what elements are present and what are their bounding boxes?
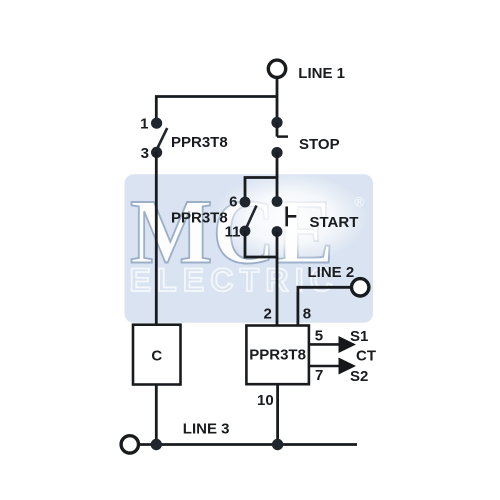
wire: relay pin 10 to LINE 3: [276, 384, 279, 444]
svg-text:LINE 2: LINE 2: [308, 264, 355, 281]
relay PPR3T8 U1: [246, 326, 309, 385]
svg-text:LINE 3: LINE 3: [183, 421, 230, 438]
watermark logo background block: [125, 172, 374, 323]
wire: parallel branch bottom connector: [245, 231, 277, 257]
wire: coil C to LINE 3: [155, 385, 158, 445]
wire LINE 3: [139, 443, 357, 446]
svg-text:®: ®: [355, 195, 365, 210]
wire: parallel branch top connector: [245, 178, 277, 204]
terminal LINE 2: [352, 279, 369, 296]
svg-text:8: 8: [303, 306, 311, 323]
svg-text:LINE 1: LINE 1: [298, 65, 345, 82]
svg-text:C: C: [151, 347, 162, 364]
svg-text:1: 1: [140, 116, 148, 133]
wire: pin 7: [309, 365, 339, 368]
svg-text:S2: S2: [350, 368, 368, 385]
CT arrow S1: [339, 336, 357, 353]
svg-text:6: 6: [229, 193, 237, 210]
wire: STOP to branch split: [276, 153, 279, 178]
svg-text:3: 3: [141, 145, 149, 162]
wire: top horizontal branch: [156, 97, 277, 123]
terminal LINE 3: [121, 436, 138, 453]
wire: branch to relay pin 2: [276, 257, 279, 326]
svg-text:STOP: STOP: [299, 136, 340, 153]
wire: contact 3 down to coil C: [155, 152, 158, 325]
junction: C to LINE 3: [151, 439, 162, 450]
CT arrow S2: [339, 358, 357, 375]
wire: pin 5: [309, 343, 339, 346]
contact PPR3T8 (1-3): [151, 118, 167, 158]
wire: LINE1 down to STOP: [276, 78, 279, 123]
svg-text:7: 7: [315, 367, 323, 384]
svg-text:S1: S1: [350, 328, 368, 345]
pushbutton STOP (NC): [271, 117, 288, 158]
svg-text:5: 5: [315, 327, 323, 344]
svg-text:10: 10: [257, 392, 274, 409]
svg-text:PPR3T8: PPR3T8: [249, 347, 306, 364]
pushbutton START (NO): [272, 196, 297, 237]
terminal LINE 1: [268, 60, 285, 77]
svg-text:START: START: [310, 214, 359, 231]
svg-text:CT: CT: [356, 348, 376, 365]
svg-text:PPR3T8: PPR3T8: [171, 134, 228, 151]
coil C (contactor): [133, 325, 181, 385]
svg-text:2: 2: [263, 306, 271, 323]
wire: LINE2 to relay pin 8: [298, 287, 351, 325]
contact PPR3T8 (6-11): [240, 197, 257, 237]
junction: pin 10 to LINE 3: [272, 439, 283, 450]
svg-text:PPR3T8: PPR3T8: [171, 209, 228, 226]
